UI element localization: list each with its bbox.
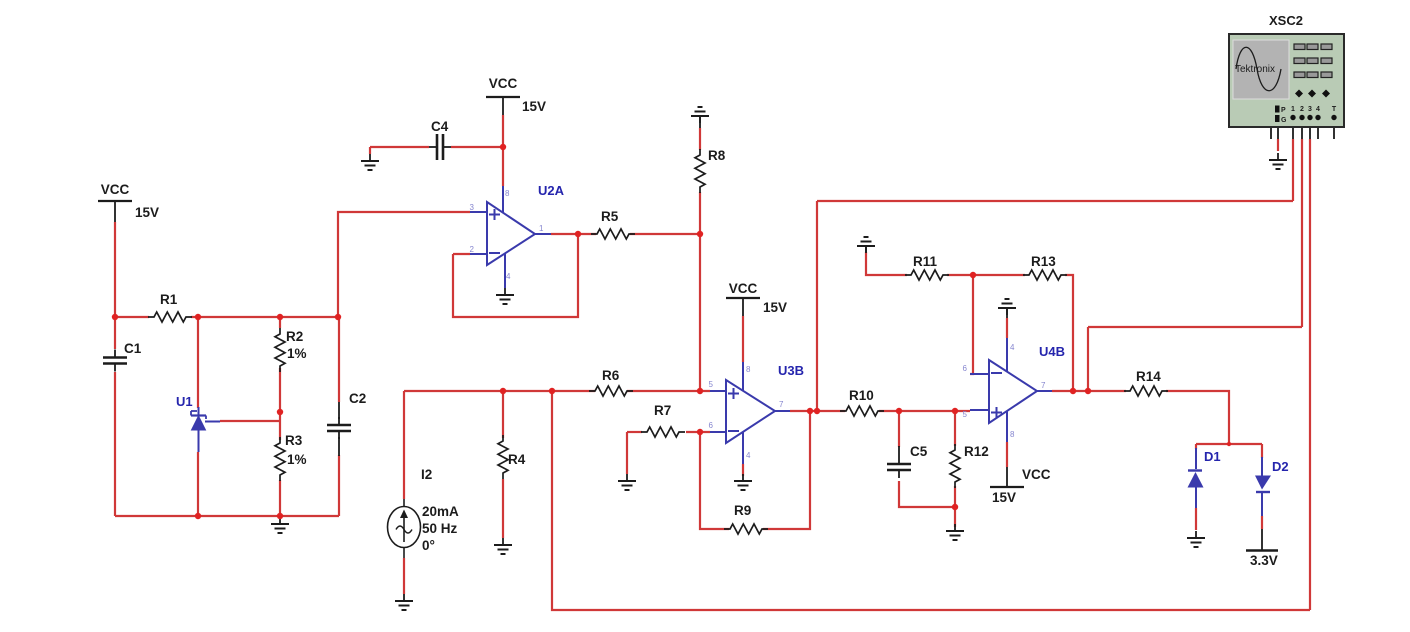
svg-text:C1: C1: [124, 341, 142, 356]
svg-text:5: 5: [963, 410, 968, 419]
svg-text:R14: R14: [1136, 369, 1161, 384]
svg-text:C5: C5: [910, 444, 928, 459]
svg-text:2: 2: [470, 245, 475, 254]
svg-text:U2A: U2A: [538, 183, 565, 198]
svg-text:20mA: 20mA: [422, 504, 459, 519]
svg-text:R10: R10: [849, 388, 874, 403]
svg-text:U3B: U3B: [778, 363, 804, 378]
svg-text:7: 7: [779, 400, 784, 409]
svg-text:VCC: VCC: [489, 76, 518, 91]
svg-text:T: T: [1332, 106, 1337, 113]
svg-text:R3: R3: [285, 433, 303, 448]
svg-text:3.3V: 3.3V: [1250, 553, 1278, 568]
svg-text:0°: 0°: [422, 538, 435, 553]
svg-text:R13: R13: [1031, 254, 1056, 269]
svg-text:15V: 15V: [763, 300, 787, 315]
svg-text:7: 7: [1041, 381, 1046, 390]
svg-text:R8: R8: [708, 148, 726, 163]
svg-text:5: 5: [709, 380, 714, 389]
svg-text:50 Hz: 50 Hz: [422, 521, 458, 536]
svg-text:R11: R11: [913, 254, 938, 269]
svg-text:4: 4: [506, 272, 511, 281]
svg-text:U4B: U4B: [1039, 344, 1065, 359]
svg-text:4: 4: [746, 451, 751, 460]
svg-text:D2: D2: [1272, 459, 1289, 474]
svg-text:XSC2: XSC2: [1269, 13, 1303, 28]
svg-text:8: 8: [1010, 430, 1015, 439]
svg-text:3: 3: [470, 203, 475, 212]
svg-text:R9: R9: [734, 503, 751, 518]
svg-text:15V: 15V: [522, 99, 546, 114]
svg-text:2: 2: [1300, 106, 1304, 113]
svg-text:I2: I2: [421, 467, 432, 482]
svg-text:R7: R7: [654, 403, 671, 418]
svg-text:1%: 1%: [287, 346, 307, 361]
svg-text:R6: R6: [602, 368, 620, 383]
svg-text:R2: R2: [286, 329, 303, 344]
svg-text:VCC: VCC: [729, 281, 758, 296]
svg-text:15V: 15V: [135, 205, 159, 220]
svg-text:D1: D1: [1204, 449, 1221, 464]
svg-text:Tektronix: Tektronix: [1235, 64, 1275, 75]
svg-text:3: 3: [1308, 106, 1312, 113]
svg-text:8: 8: [505, 189, 510, 198]
svg-text:R12: R12: [964, 444, 989, 459]
svg-text:6: 6: [709, 421, 714, 430]
svg-text:1: 1: [1291, 106, 1295, 113]
svg-text:15V: 15V: [992, 490, 1016, 505]
svg-text:4: 4: [1010, 343, 1015, 352]
svg-text:R4: R4: [508, 452, 526, 467]
svg-text:VCC: VCC: [1022, 467, 1051, 482]
svg-text:P: P: [1281, 107, 1286, 114]
svg-text:R5: R5: [601, 209, 619, 224]
svg-text:C4: C4: [431, 119, 449, 134]
svg-text:1: 1: [539, 224, 544, 233]
svg-text:4: 4: [1316, 106, 1320, 113]
svg-text:VCC: VCC: [101, 182, 130, 197]
svg-text:1%: 1%: [287, 452, 307, 467]
svg-text:C2: C2: [349, 391, 366, 406]
svg-text:6: 6: [963, 364, 968, 373]
svg-text:8: 8: [746, 365, 751, 374]
svg-text:G: G: [1281, 117, 1287, 124]
svg-text:U1: U1: [176, 394, 193, 409]
svg-text:R1: R1: [160, 292, 178, 307]
